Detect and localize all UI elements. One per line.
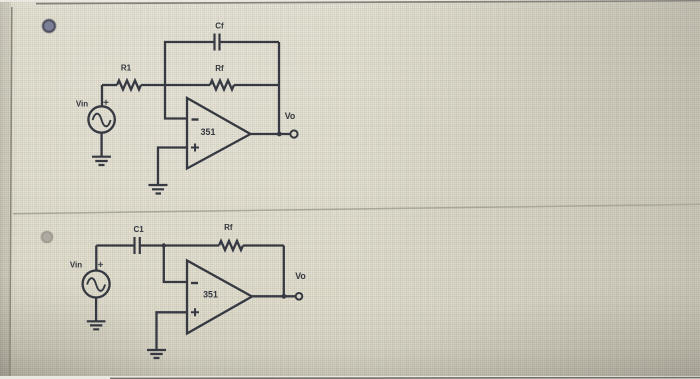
wire: inverting node down to op-amp - input: [165, 85, 187, 119]
svg-text:Rf: Rf: [215, 64, 224, 73]
wire: Rf to output branch: [234, 84, 279, 86]
svg-text:351: 351: [203, 290, 218, 300]
frame: top rule: [36, 1, 700, 4]
frame: bottom bezel line: [110, 377, 700, 379]
wire: op-amp output: [252, 295, 296, 297]
wire: Rf to output branch: [243, 244, 284, 246]
wire: source to ground: [95, 298, 97, 322]
ground (op-amp + input): [149, 185, 168, 194]
resistor R1: [117, 81, 141, 90]
polarity + (source): [104, 100, 109, 105]
ground (op-amp + input): [147, 350, 166, 358]
resistor Rf: [219, 241, 243, 250]
terminal Vo (open circle): [296, 293, 303, 300]
capacitor Cf: [215, 34, 220, 51]
ground (source): [87, 321, 106, 329]
wire: inverting node down to op-amp - input: [164, 246, 187, 283]
wire: source Vin top lead: [101, 85, 103, 106]
ground (source): [92, 157, 111, 165]
polarity + (source): [98, 262, 103, 267]
svg-text:Rf: Rf: [224, 223, 233, 232]
op-amp minus pin: [192, 118, 199, 120]
wire: R1 to inverting node: [141, 84, 210, 86]
op-amp minus pin: [191, 282, 198, 284]
wire: + input stub: [157, 312, 188, 350]
source Vin (AC): [88, 106, 114, 132]
svg-text:351: 351: [201, 127, 216, 137]
source Vin (AC): [83, 271, 110, 298]
resistor Rf: [210, 81, 234, 90]
svg-text:C1: C1: [133, 225, 144, 234]
op-amp plus pin: [191, 144, 199, 152]
node: output junction: [277, 132, 282, 137]
frame: left vertical border: [10, 7, 12, 376]
wire: source Vin top lead: [95, 246, 97, 271]
op-amp U2 (351): [187, 261, 252, 334]
wire: feedback upper branch (to Cf): [165, 42, 279, 85]
svg-text:Cf: Cf: [215, 22, 224, 31]
node: output junction: [282, 294, 287, 299]
svg-text:Vin: Vin: [70, 261, 82, 270]
wire: source to ground: [100, 133, 102, 157]
capacitor C1: [135, 237, 140, 254]
wire: Vin node to R1: [102, 84, 117, 86]
terminal Vo (open circle): [290, 130, 297, 137]
node: inverting node junction: [162, 243, 166, 247]
svg-text:R1: R1: [121, 64, 132, 73]
radio button option 1: [42, 19, 56, 33]
wire: C1 to inverting node: [140, 244, 164, 246]
radio button option 2: [41, 231, 53, 243]
wire: inverting node to Rf: [164, 244, 219, 246]
wire: op-amp output: [251, 133, 291, 135]
op-amp U1 (351): [187, 98, 251, 169]
wire: Vin node to C1: [96, 244, 134, 246]
svg-text:Vo: Vo: [285, 111, 296, 121]
wire: output branch vertical: [278, 42, 280, 134]
op-amp plus pin: [191, 308, 199, 316]
wire: output branch vertical: [283, 246, 285, 297]
svg-text:Vin: Vin: [76, 100, 88, 109]
frame: section divider: [13, 204, 700, 213]
wire: + input stub: [158, 148, 187, 186]
svg-text:Vo: Vo: [295, 271, 306, 281]
